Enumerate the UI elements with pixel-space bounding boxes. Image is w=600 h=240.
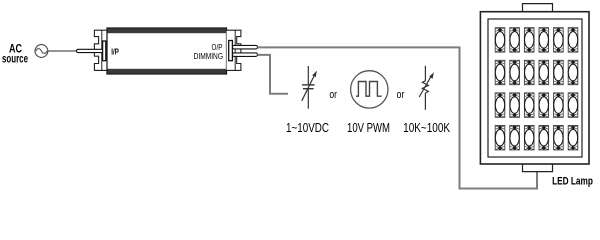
LED unit row 2 col 2 bbox=[510, 60, 520, 84]
LED unit row 1 col 1 bbox=[495, 28, 505, 52]
svg-text:source: source bbox=[2, 53, 28, 66]
right mounting flange bbox=[227, 30, 241, 70]
LED unit row 1 col 5 bbox=[554, 28, 564, 52]
svg-text:LED Lamp: LED Lamp bbox=[552, 176, 593, 188]
input cable bbox=[77, 49, 104, 52]
LED lamp panel inner frame bbox=[488, 19, 582, 157]
LED unit row 2 col 3 bbox=[524, 60, 534, 84]
svg-text:DIMMING: DIMMING bbox=[194, 51, 223, 61]
LED unit row 2 col 4 bbox=[539, 60, 549, 84]
LED unit row 1 col 3 bbox=[524, 28, 534, 52]
wire: AC source to input cable bbox=[48, 50, 78, 52]
LED driver body bbox=[107, 28, 227, 74]
svg-text:10V PWM: 10V PWM bbox=[347, 122, 390, 136]
LED unit row 3 col 1 bbox=[495, 93, 505, 117]
LED unit row 4 col 1 bbox=[495, 126, 505, 150]
AC source symbol bbox=[35, 45, 48, 58]
LED unit row 3 col 4 bbox=[539, 93, 549, 117]
output cable stub DIMMING bbox=[232, 53, 257, 57]
LED unit row 1 col 6 bbox=[568, 28, 578, 52]
LED unit row 2 col 6 bbox=[568, 60, 578, 84]
LED unit row 3 col 3 bbox=[524, 93, 534, 117]
svg-text:or: or bbox=[397, 89, 405, 101]
LED unit row 4 col 4 bbox=[539, 126, 549, 150]
LED unit row 4 col 3 bbox=[524, 126, 534, 150]
variable resistor symbol (10K~100K) bbox=[419, 66, 434, 110]
LED unit row 1 col 2 bbox=[510, 28, 520, 52]
LED unit row 3 col 6 bbox=[568, 93, 578, 117]
LED lamp panel outer frame bbox=[480, 12, 589, 164]
LED unit row 2 col 1 bbox=[495, 60, 505, 84]
svg-text:1~10VDC: 1~10VDC bbox=[286, 122, 329, 136]
variable DC source symbol (1~10VDC) bbox=[302, 66, 317, 109]
LED lamp bottom tab bbox=[523, 164, 553, 172]
PWM signal source symbol (10V PWM) bbox=[351, 71, 388, 108]
LED lamp top tab bbox=[523, 4, 553, 12]
LED unit row 3 col 2 bbox=[510, 93, 520, 117]
svg-text:I/P: I/P bbox=[111, 46, 119, 56]
svg-text:10K~100K: 10K~100K bbox=[403, 122, 450, 135]
LED unit row 4 col 2 bbox=[510, 126, 520, 150]
output cable stub O/P bbox=[232, 45, 257, 49]
label AC source bbox=[2, 42, 28, 66]
input connector plate bbox=[103, 41, 106, 61]
wire: O/P output to LED lamp bbox=[258, 47, 538, 188]
LED unit row 4 col 5 bbox=[554, 126, 564, 150]
LED unit row 4 col 6 bbox=[568, 126, 578, 150]
svg-text:or: or bbox=[329, 89, 337, 101]
left mounting flange bbox=[94, 30, 107, 70]
wire: DIMMING output down to dimmer options bbox=[258, 55, 289, 94]
LED unit row 1 col 4 bbox=[539, 28, 549, 52]
output connector plate bbox=[229, 41, 233, 61]
LED unit row 3 col 5 bbox=[554, 93, 564, 117]
LED unit row 2 col 5 bbox=[554, 60, 564, 84]
